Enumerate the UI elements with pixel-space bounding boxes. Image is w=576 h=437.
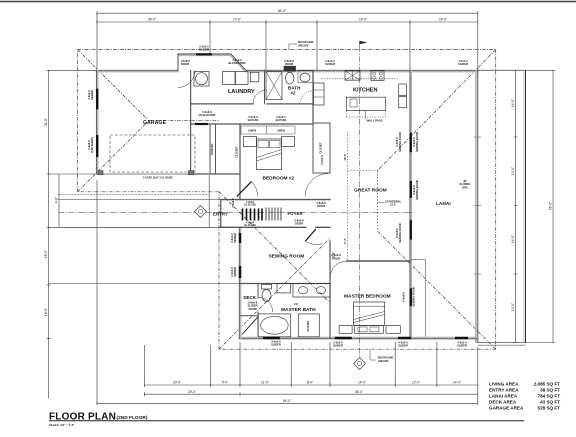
svg-text:SLIDER: SLIDER — [457, 344, 467, 348]
left dim line — [48, 70, 50, 398]
svg-text:38 SQ FT: 38 SQ FT — [540, 388, 560, 393]
svg-text:55'-0": 55'-0" — [355, 390, 363, 394]
title underline — [49, 420, 524, 422]
svg-text:LINEN: LINEN — [248, 129, 256, 133]
svg-text:SLIDING DOOR: SLIDING DOOR — [415, 180, 419, 200]
svg-text:LINEN: LINEN — [277, 129, 285, 133]
right dim ticks inner — [514, 70, 518, 342]
window sewing b — [239, 266, 241, 278]
master nightstand left — [339, 326, 352, 334]
garage attic dashed box — [110, 135, 195, 172]
lanai east edge dark — [477, 70, 479, 342]
svg-text:SLIDER: SLIDER — [199, 48, 209, 52]
bedroom2 closet shelves — [241, 126, 295, 134]
wall pass leader — [364, 111, 366, 120]
entry door bars — [243, 209, 263, 221]
wall hall north — [191, 123, 313, 125]
wall master north — [347, 260, 410, 262]
window south tub — [263, 337, 280, 339]
master bed — [353, 302, 384, 326]
svg-text:MASTER BEDROOM: MASTER BEDROOM — [344, 294, 391, 300]
window bump top — [196, 53, 212, 55]
sheet top border — [0, 1, 576, 3]
svg-text:2-CARS 16'x7' O.H. DOOR: 2-CARS 16'x7' O.H. DOOR — [143, 177, 173, 180]
wall west wing edge — [238, 227, 240, 338]
bedroom2 bed fold lines — [257, 150, 282, 162]
svg-text:SL-GLASS: SL-GLASS — [244, 204, 256, 207]
bottom extension lines — [97, 180, 478, 404]
svg-text:DOOR: DOOR — [249, 307, 257, 311]
lanai edge ticks — [474, 137, 481, 274]
svg-text:SLIDING DOOR: SLIDING DOOR — [398, 132, 402, 152]
wall sewing bath divider — [240, 283, 330, 285]
top dim ticks — [97, 11, 478, 24]
roof hip garage top — [78, 50, 149, 121]
svg-text:4'-0": 4'-0" — [55, 197, 59, 203]
svg-text:14'-0": 14'-0" — [511, 303, 515, 311]
kitchen counter dotted edge — [322, 78, 398, 80]
svg-text:DOOR: DOOR — [295, 222, 303, 226]
svg-text:4-0x5-0: 4-0x5-0 — [320, 155, 324, 165]
svg-text:8'-0": 8'-0" — [307, 381, 313, 385]
svg-text:DOOR: DOOR — [332, 256, 340, 260]
door arc bedroom2 — [252, 182, 258, 197]
garage door jamb left — [98, 171, 103, 175]
bath2 shower X — [266, 72, 282, 100]
wall bedroom2 west — [239, 124, 241, 200]
section flag top — [360, 41, 367, 46]
south marker circle — [357, 361, 361, 365]
svg-text:BI-PASS DRS: BI-PASS DRS — [228, 61, 245, 65]
svg-text:84'-0": 84'-0" — [278, 9, 286, 13]
svg-text:SLIDER: SLIDER — [271, 343, 281, 347]
svg-text:LIVING AREA: LIVING AREA — [489, 382, 519, 387]
mbath closet — [298, 314, 319, 337]
left sub dim line — [58, 174, 60, 228]
svg-text:LAUNDRY: LAUNDRY — [228, 89, 255, 95]
svg-text:DECK: DECK — [244, 295, 257, 300]
svg-text:MASTER BATH: MASTER BATH — [281, 307, 316, 313]
great room interior dim line — [347, 132, 349, 261]
section line vertical — [359, 46, 361, 357]
svg-text:ABOVE: ABOVE — [298, 43, 309, 47]
svg-text:29'-0": 29'-0" — [188, 390, 196, 394]
wall foyer south — [221, 226, 330, 228]
wall garage left core — [97, 70, 99, 174]
svg-text:CLOSET: CLOSET — [234, 146, 238, 158]
svg-text:31'-0": 31'-0" — [44, 118, 48, 126]
left extension lines — [49, 70, 240, 283]
wall laundry bump core — [179, 55, 245, 71]
mbath toilet bowl — [262, 290, 271, 302]
walk edge vertical — [208, 175, 210, 227]
door arc hall br2 — [305, 174, 328, 197]
lanai south strip — [478, 344, 526, 346]
svg-text:SLIDING DOOR: SLIDING DOOR — [398, 223, 402, 243]
svg-text:18'-0": 18'-0" — [44, 250, 48, 258]
svg-text:WALL PASS: WALL PASS — [367, 119, 383, 123]
wall hall south — [191, 173, 240, 175]
svg-text:SCALE: 1/4" = 1'-0": SCALE: 1/4" = 1'-0" — [49, 423, 75, 427]
svg-text:SLIDER: SLIDER — [333, 344, 343, 348]
svg-text:19'-0": 19'-0" — [359, 18, 367, 22]
section line horizontal — [58, 211, 415, 213]
svg-text:16'-6": 16'-6" — [44, 308, 48, 316]
svg-text:SL-GLASS: SL-GLASS — [244, 224, 256, 227]
svg-text:5'-4": 5'-4" — [343, 237, 347, 244]
door arc master — [330, 261, 347, 278]
driveway dashed edge — [58, 193, 209, 195]
wall foyer north — [221, 199, 330, 201]
right dim line outer — [552, 70, 554, 342]
door leaf deck lower — [242, 316, 258, 334]
door arc sewing — [305, 241, 322, 244]
door arc bath2 — [300, 91, 313, 104]
master dresser — [355, 326, 384, 334]
svg-text:14'-0": 14'-0" — [511, 99, 515, 107]
kitchen island — [346, 97, 385, 110]
svg-text:PANTRY: PANTRY — [210, 143, 214, 154]
roof outline lower-left edge — [218, 192, 220, 349]
svg-text:SLIDER: SLIDER — [90, 90, 94, 100]
svg-text:ENTRY AREA: ENTRY AREA — [489, 388, 519, 393]
svg-text:CLOSET: CLOSET — [306, 320, 310, 332]
wall entry west — [220, 200, 222, 228]
laundry tub circle — [196, 73, 208, 85]
bottom dim row1 — [144, 384, 478, 386]
svg-text:SLIDER: SLIDER — [233, 233, 237, 243]
window garage left — [96, 89, 98, 110]
window sewing a — [239, 233, 241, 243]
svg-text:DRS: DRS — [462, 185, 468, 189]
window south a — [335, 337, 352, 339]
wall closet pantry a — [209, 124, 211, 174]
svg-text:GREAT ROOM: GREAT ROOM — [354, 187, 387, 193]
wall closet pantry b — [215, 124, 217, 174]
svg-text:43 SQ FT: 43 SQ FT — [540, 400, 560, 405]
roofline above leader top — [289, 44, 297, 49]
roof outline garage bottom edge — [78, 191, 219, 193]
svg-text:2) BI-SLDRS: 2) BI-SLDRS — [90, 137, 94, 153]
bath2 sink — [300, 73, 310, 82]
wall bath2 east — [312, 70, 314, 123]
svg-text:20'-0": 20'-0" — [173, 381, 181, 385]
svg-text:14'-0": 14'-0" — [511, 167, 515, 175]
master bed head line — [353, 305, 384, 307]
top extension lines — [97, 13, 478, 70]
door leaf bedroom2 — [237, 182, 252, 197]
bedroom2 bed — [257, 139, 282, 170]
wall laundry south — [191, 103, 313, 105]
dryer — [236, 72, 249, 85]
bottom dim row2 — [144, 393, 478, 395]
svg-text:BI-PASS: BI-PASS — [276, 118, 287, 122]
wall hall west — [190, 70, 192, 174]
roof hip southwest — [219, 238, 330, 349]
foyer side smudges — [266, 208, 281, 221]
wall deck bath sep — [241, 284, 258, 336]
top dim line overall — [97, 12, 478, 14]
bath2 vanity — [298, 71, 313, 83]
right dim line inner — [515, 70, 517, 342]
bath2 shower — [266, 72, 282, 100]
svg-text:14'-0": 14'-0" — [453, 381, 461, 385]
garage door opening left wall — [96, 135, 98, 157]
wall sewing mbath east — [329, 241, 331, 338]
wall laundry bump edges — [178, 54, 246, 70]
top dim line segments — [97, 21, 478, 23]
svg-text:KITCHEN: KITCHEN — [353, 88, 377, 94]
svg-text:2,085 SQ FT: 2,085 SQ FT — [534, 382, 560, 387]
svg-text:DECK AREA: DECK AREA — [489, 400, 517, 405]
wall east core — [410, 70, 412, 339]
svg-text:DOOR: DOOR — [285, 62, 293, 66]
lanai screen wall gray — [523, 70, 525, 342]
mbath sink b — [317, 287, 326, 294]
slider east a — [410, 133, 412, 152]
bottom dim row2 ticks — [144, 392, 478, 396]
laundry tub box — [194, 72, 209, 87]
wall south edge — [240, 338, 478, 340]
roof outline bottom edge — [219, 348, 496, 350]
mbath vanity — [293, 283, 330, 297]
svg-text:11'-0": 11'-0" — [261, 381, 269, 385]
roof ridge garage — [149, 120, 219, 122]
roof valley inside corner — [219, 192, 330, 303]
svg-text:SLIDER: SLIDER — [398, 344, 408, 348]
svg-text:10'-0": 10'-0" — [343, 153, 347, 161]
svg-text:9'-0": 9'-0" — [222, 381, 228, 385]
wall top gray core — [96, 71, 477, 73]
svg-text:BEDROOM #2: BEDROOM #2 — [263, 176, 295, 182]
bottom dim row3 ticks — [97, 401, 478, 405]
lanai screen wall outer — [525, 70, 527, 342]
lanai east edge gray — [475, 70, 477, 342]
door arc hall laundry — [253, 90, 267, 104]
lanai top edge — [478, 69, 526, 71]
door leaf sewing — [305, 229, 316, 241]
svg-text:ABOVE: ABOVE — [378, 359, 389, 363]
svg-text:SEWING ROOM: SEWING ROOM — [269, 253, 305, 259]
slider master east — [410, 288, 412, 306]
svg-text:SLIDER: SLIDER — [325, 62, 335, 66]
svg-text:CLG: CLG — [390, 203, 396, 207]
roofline above leader bottom — [370, 350, 376, 360]
roof outline right edge — [495, 50, 497, 350]
washer — [223, 72, 236, 85]
roof ridge center vertical — [377, 171, 379, 232]
door mark hall north — [195, 123, 208, 125]
mbath tub — [258, 314, 291, 337]
svg-text:14'-0": 14'-0" — [511, 235, 515, 243]
roof hip northeast — [378, 50, 496, 171]
svg-text:CLOSET: CLOSET — [319, 142, 323, 154]
svg-text:FOYER: FOYER — [288, 211, 304, 216]
svg-text:ENTRY: ENTRY — [213, 211, 228, 216]
bath2 toilet tank — [284, 66, 296, 71]
wall east edge — [409, 70, 411, 339]
mbath tub basin — [261, 316, 289, 334]
bedroom2 pillows — [258, 141, 269, 148]
entry door diamond — [195, 206, 207, 218]
lanai nook lines — [411, 259, 425, 336]
svg-text:SLIDING DOOR: SLIDING DOOR — [412, 287, 416, 307]
svg-text:SLIDING DOOR: SLIDING DOOR — [415, 132, 419, 152]
svg-text:(2) BI-SLDRS: (2) BI-SLDRS — [199, 113, 216, 117]
master bed fold lines — [353, 312, 384, 323]
slider east b — [410, 181, 412, 198]
svg-text:14'-0": 14'-0" — [439, 18, 447, 22]
right extension lines — [526, 70, 555, 342]
slider east c — [410, 220, 412, 239]
kitchen oven tower — [314, 83, 325, 105]
bedroom2 dresser left — [244, 137, 257, 147]
great room dotted ceiling line — [348, 170, 378, 172]
wall garage front header — [96, 173, 190, 175]
garage door jamb right — [188, 171, 194, 175]
wall top edge line — [96, 69, 477, 71]
svg-text:56'-0": 56'-0" — [549, 202, 553, 210]
pantry boxes — [399, 84, 407, 96]
svg-text:GARAGE: GARAGE — [143, 120, 167, 126]
svg-text:36'-0": 36'-0" — [148, 18, 156, 22]
cathedral clg leader — [378, 201, 385, 203]
svg-text:784 SQ FT: 784 SQ FT — [538, 394, 561, 399]
svg-text:SLIDER: SLIDER — [233, 267, 237, 277]
svg-text:GARAGE AREA: GARAGE AREA — [489, 406, 524, 411]
south marker diamond — [354, 358, 366, 370]
bottom dim row1 ticks — [144, 383, 478, 387]
svg-text:3-0x6-8: 3-0x6-8 — [231, 198, 235, 208]
svg-text:LANAI AREA: LANAI AREA — [489, 394, 518, 399]
bedroom2 dresser right — [282, 137, 295, 147]
svg-text:2-8: 2-8 — [294, 302, 298, 306]
bath2 toilet bowl — [286, 72, 294, 84]
roof hip garage bottom — [78, 121, 149, 192]
laundry counter small box — [250, 72, 258, 82]
wall garage left edge — [95, 70, 97, 174]
kitchen island overhang dashed — [346, 111, 385, 118]
master nightstand right — [386, 326, 400, 334]
svg-text:#2: #2 — [291, 91, 297, 96]
roof hip southeast — [378, 231, 496, 349]
svg-text:(2ND FLOOR): (2ND FLOOR) — [117, 415, 148, 421]
mbath sink a — [299, 287, 308, 294]
wall laundry bath sep — [264, 70, 266, 104]
kitchen sink bowtie — [345, 71, 360, 80]
kitchen stove — [371, 71, 384, 81]
entry walk lines — [58, 200, 221, 228]
mbath toilet tank — [262, 285, 272, 290]
roof outline left edge — [77, 50, 79, 192]
svg-text:17'-0": 17'-0" — [233, 18, 241, 22]
roof outline top edge — [78, 49, 496, 51]
svg-text:12'-0": 12'-0" — [412, 381, 420, 385]
svg-text:528 SQ FT: 528 SQ FT — [538, 406, 561, 411]
door arc deck — [258, 297, 273, 312]
svg-text:LANAI: LANAI — [436, 201, 451, 207]
svg-text:6-0x6-8: 6-0x6-8 — [402, 292, 406, 302]
wall west wing core — [240, 227, 242, 338]
svg-text:SLIDER: SLIDER — [458, 62, 468, 66]
svg-text:DOOR: DOOR — [181, 62, 189, 66]
svg-text:DOOR: DOOR — [317, 204, 325, 208]
bottom dim row3 — [97, 402, 478, 404]
svg-text:BI-PASS: BI-PASS — [248, 118, 259, 122]
svg-text:14'-0": 14'-0" — [358, 381, 366, 385]
door arc laundry — [178, 71, 195, 88]
entry diamond circle — [198, 209, 202, 213]
left dim ticks — [47, 70, 51, 338]
wall south core — [240, 337, 478, 339]
svg-text:84'-0": 84'-0" — [283, 399, 291, 403]
lanai bottom edge — [478, 342, 526, 344]
wall closet br2 box — [313, 123, 330, 173]
window south c — [455, 337, 468, 339]
window south b — [398, 337, 411, 339]
mbath linen — [277, 283, 291, 293]
